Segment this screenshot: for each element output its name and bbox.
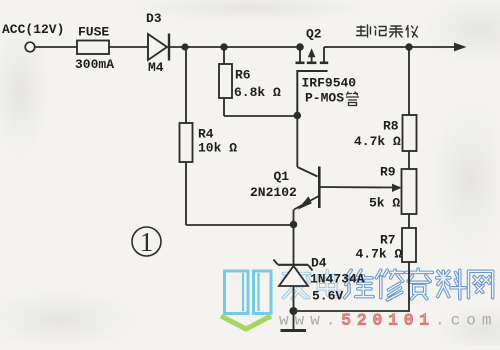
ground [281, 311, 307, 331]
svg-text:IRF9540: IRF9540 [302, 76, 357, 91]
svg-text:www.520101.com: www.520101.com [279, 312, 497, 330]
wire bottom return [294, 262, 410, 311]
label P-MOS管 [305, 91, 359, 106]
node gate collector junction [294, 112, 302, 120]
svg-text:6.8k Ω: 6.8k Ω [234, 85, 281, 100]
label D4 [311, 256, 327, 271]
label R8 4.7k ohm [354, 134, 401, 149]
wire terminal to fuse [35, 46, 78, 48]
svg-text:4.7k Ω: 4.7k Ω [356, 247, 403, 262]
label R6 [235, 68, 251, 83]
label Q2 [306, 27, 322, 42]
wire R7 to R9 [408, 214, 410, 228]
svg-text:R8: R8 [383, 119, 399, 134]
svg-text:M4: M4 [148, 60, 164, 75]
label R7 [380, 233, 396, 248]
potentiometer R9 [392, 169, 417, 214]
label 5k ohm [369, 196, 400, 211]
label R7 4.7k ohm [356, 247, 403, 262]
node rail R6 junction [220, 43, 227, 50]
svg-text:Q2: Q2 [306, 27, 322, 42]
label D3 [146, 11, 162, 26]
wire fuse to D3 [109, 46, 148, 48]
svg-text:10k Ω: 10k Ω [198, 141, 237, 156]
zener diode D4 [274, 225, 313, 311]
svg-text:2N2102: 2N2102 [250, 185, 297, 200]
svg-text:Q1: Q1 [274, 169, 290, 184]
svg-text:5.6V: 5.6V [312, 289, 343, 304]
node rail R4 junction [181, 43, 188, 50]
transistor Q2 IRF9540 P-MOS [296, 43, 329, 115]
watermark url www.520101.com [279, 312, 497, 330]
label FUSE [78, 25, 109, 40]
wire D3 to Q2 source [169, 46, 300, 48]
resistor R7 [402, 228, 416, 262]
watermark text 家电维修资料网 [283, 269, 493, 300]
wire R9 to R8 [408, 151, 410, 169]
wire R4 to emitter node [186, 224, 294, 226]
resistor R8 [403, 115, 417, 151]
node ground junction [290, 307, 298, 315]
svg-text:R6: R6 [235, 68, 251, 83]
transistor Q1 2N2102 [294, 116, 401, 226]
svg-text:R9: R9 [380, 165, 396, 180]
wire R6 to gate node [224, 115, 297, 117]
node ACC input terminal [25, 42, 35, 52]
svg-text:R4: R4 [198, 127, 214, 142]
wire Q2 drain to output [324, 46, 456, 48]
resistor R4 [180, 47, 193, 225]
figure number circle 1 [132, 227, 161, 257]
node output R8 junction [405, 43, 412, 50]
wire R8 to output node [408, 47, 410, 115]
label 5.6V [312, 289, 343, 304]
label M4 [148, 60, 164, 75]
node emitter junction [290, 221, 298, 229]
label 1N4734A [310, 272, 365, 287]
label 300mA [75, 57, 114, 72]
label ACC(12V) [2, 22, 64, 37]
label 6.8k ohm [234, 85, 281, 100]
svg-text:1N4734A: 1N4734A [310, 272, 365, 287]
svg-text:R7: R7 [380, 233, 396, 248]
label R8 [383, 119, 399, 134]
svg-text:ACC(12V): ACC(12V) [2, 22, 64, 37]
label R9 [380, 165, 396, 180]
watermark book icon [221, 271, 271, 329]
svg-text:5k Ω: 5k Ω [369, 196, 400, 211]
diode D3 M4 [148, 34, 169, 61]
svg-text:FUSE: FUSE [78, 25, 109, 40]
fuse FUSE 300mA [77, 41, 109, 55]
resistor R6 [219, 47, 232, 116]
label R4 [198, 127, 214, 142]
svg-text:1: 1 [140, 227, 154, 257]
label 2N2102 [250, 185, 297, 200]
label Q1 [274, 169, 290, 184]
output arrow to recorder [454, 43, 467, 52]
label 到记录仪 [357, 25, 418, 37]
label IRF9540 [302, 76, 357, 91]
svg-text:D3: D3 [146, 11, 162, 26]
svg-text:4.7k Ω: 4.7k Ω [354, 134, 401, 149]
svg-text:300mA: 300mA [75, 57, 114, 72]
svg-text:P-MOS: P-MOS [305, 91, 344, 106]
label 10k ohm [198, 141, 237, 156]
svg-text:D4: D4 [311, 256, 327, 271]
